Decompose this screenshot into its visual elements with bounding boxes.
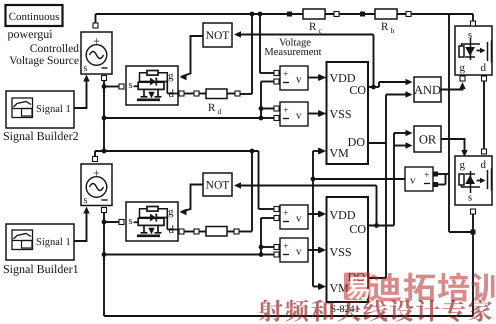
M3 g port (460, 76, 465, 81)
wire M2 d to R_d2 (184, 231, 194, 233)
wire VM4 minus chain to VM5 (261, 217, 274, 219)
svg-text:powergui: powergui (8, 27, 54, 41)
junction left bus VM5 wire (102, 252, 107, 257)
junction VM5 plus (259, 245, 264, 250)
M3 d port (482, 76, 487, 81)
svg-text:v: v (296, 246, 302, 258)
svg-text:g: g (168, 70, 174, 82)
junction VM2 minus (259, 116, 264, 121)
wire left bus V2 bottom to bottom rail (103, 213, 105, 317)
svg-text:+: + (283, 69, 289, 80)
V2 bottom port (102, 208, 107, 213)
wire DO2 stub (368, 277, 386, 279)
logic OR (414, 126, 441, 152)
transistor M4 MOSFET vertical flipped (455, 156, 492, 205)
wire VM3 plus stub (436, 173, 449, 175)
svg-text:v: v (296, 213, 302, 225)
svg-text:OR: OR (419, 133, 437, 147)
M1 s port (119, 84, 124, 89)
IC U1 S-8241 subsystem (327, 62, 369, 164)
svg-text:R: R (309, 21, 317, 33)
junction left bus V2 rail (102, 149, 107, 154)
voltmeter VM5 (280, 238, 308, 262)
svg-text:Voltage Source: Voltage Source (9, 55, 79, 67)
junction M4 s wire (471, 230, 476, 235)
wire long horizontal VM5 minus to left bus (104, 254, 261, 256)
svg-text:s: s (129, 216, 133, 227)
signal builder SB1 (6, 224, 74, 260)
svg-text:AND: AND (414, 83, 441, 97)
M4 d port (482, 149, 487, 154)
wire VM3 output to VM inputs riser (313, 178, 405, 180)
voltmeter VM1 (280, 66, 308, 90)
junction top rail VM1 riser (258, 12, 263, 17)
junction VM2 plus (259, 106, 264, 111)
svg-text:Signal Builder1: Signal Builder1 (3, 262, 79, 276)
wire VM4 output to VDD2 (308, 213, 320, 215)
wire VM2 output to VSS1 (308, 113, 320, 115)
wire NOT2 input feed from CO2 (240, 185, 377, 187)
wire VM3 minus stub (436, 184, 446, 186)
logic AND (414, 77, 441, 102)
junction left bus VM2 wire (102, 116, 107, 121)
wire left bus V1 bottom down to V2 top rail (103, 81, 105, 152)
junction VM5 minus (259, 252, 264, 257)
wire M4 s riser to bottom rail (472, 214, 474, 316)
junction CO2 node (374, 223, 379, 228)
transistor M3 MOSFET vertical (455, 26, 492, 75)
svg-text:DO: DO (348, 135, 366, 149)
IC U2 S-8241 subsystem (327, 197, 369, 302)
svg-text:VSS: VSS (330, 245, 352, 259)
wire V2 top rail (95, 150, 259, 152)
wire riser V2 rail to VM4 plus (258, 151, 260, 209)
wire VM3 net riser from top rail to y232 (448, 14, 450, 232)
svg-text:g: g (168, 206, 174, 218)
wire M3 d to M4 d (483, 81, 485, 149)
voltmeter VM2 (280, 102, 308, 126)
logic NOT1 (203, 23, 232, 47)
V1 bottom port (102, 76, 107, 81)
logic NOT2 (203, 173, 232, 196)
svg-text:CO: CO (349, 222, 366, 236)
V2 top port (93, 157, 98, 162)
voltmeter VM3 mirrored (405, 167, 433, 191)
svg-text:g: g (460, 159, 466, 171)
wire NOT1 output to M1 gate (182, 36, 204, 77)
transistor M2 MOSFET (126, 202, 178, 241)
svg-text:s: s (468, 193, 472, 204)
M1 d port (179, 91, 184, 96)
wire bottom rail (104, 315, 473, 317)
resistor R_c (287, 12, 292, 17)
svg-text:s: s (84, 195, 88, 206)
svg-text:VSS: VSS (330, 107, 352, 121)
wire SB1 to V2 s input (74, 211, 87, 241)
svg-text:v: v (410, 175, 416, 187)
svg-text:NOT: NOT (206, 30, 230, 42)
wire riser R_d to top rail (251, 14, 253, 94)
watermark slogan text (259, 300, 283, 322)
wire NOT2 output to M2 gate (182, 185, 204, 212)
wire long horizontal VM2 minus to left bus (104, 117, 261, 119)
wire VM5 output to VSS2 (308, 249, 320, 251)
wire OR output to M4 gate (441, 139, 465, 152)
wire top rail from V1 to R_c R_b and M3 (96, 13, 474, 15)
M2 s port (119, 220, 124, 225)
svg-text:+: + (283, 105, 289, 116)
svg-text:Signal 1: Signal 1 (36, 104, 71, 115)
wire AND output to M3 gate (441, 86, 463, 90)
svg-text:d: d (481, 62, 487, 74)
resistor R_b (360, 12, 365, 17)
junction left bus M2 s (102, 220, 107, 225)
svg-text:+: + (424, 170, 430, 181)
svg-text:VM: VM (330, 146, 350, 160)
svg-text:v: v (296, 110, 302, 122)
wire VM1 output to VDD1 (308, 77, 320, 79)
junction VM3 output node (311, 177, 316, 182)
V1 top port (93, 23, 98, 28)
wire VM1 minus chain to VM2 (261, 81, 274, 83)
wire M1 d to R_d (184, 93, 194, 95)
svg-text:VDD: VDD (330, 208, 356, 222)
wire riser R_d2 to V2 rail (251, 151, 253, 232)
U1 input arrows (322, 77, 326, 79)
junction left bus M1 s (102, 84, 107, 89)
junction top rail R_d riser (250, 12, 255, 17)
wire DO1 to AND in2 riser (368, 142, 386, 144)
svg-text:b: b (391, 26, 395, 35)
svg-text:NOT: NOT (206, 180, 230, 192)
svg-text:CO: CO (349, 83, 366, 97)
signal builder SB2 (6, 91, 74, 128)
powergui block (6, 5, 63, 26)
wire CO1 to AND in1 (368, 86, 379, 88)
wire SB2 to V1 s input (74, 79, 87, 108)
resistor R_d2 (194, 229, 199, 234)
M3 top port (471, 21, 476, 26)
svg-text:s: s (129, 80, 133, 91)
watermark big text (370, 273, 401, 302)
transistor M1 MOSFET (126, 66, 178, 105)
watermark logo square (344, 273, 371, 301)
M2 d port (179, 229, 184, 234)
svg-text:v: v (296, 74, 302, 86)
svg-text:Signal Builder2: Signal Builder2 (3, 129, 79, 143)
svg-text:Measurement: Measurement (264, 47, 321, 58)
svg-text:s: s (84, 63, 88, 74)
wire riser top rail to VM1 plus (259, 14, 261, 73)
svg-text:R: R (208, 102, 216, 114)
junction V2 rail R_d2 riser (250, 149, 255, 154)
svg-text:R: R (381, 21, 389, 33)
wire CO2 to OR riser (368, 225, 394, 227)
voltmeter VM4 (280, 205, 308, 229)
svg-text:d: d (218, 107, 222, 116)
M4 s port (471, 209, 476, 214)
resistor R_d (194, 91, 199, 96)
controlled voltage source V1 (81, 32, 112, 74)
wire V1 bottom to M1 s (104, 86, 119, 88)
svg-text:Controlled: Controlled (30, 43, 79, 55)
wire V2 bottom to M2 s (104, 221, 119, 223)
controlled voltage source V2 (81, 164, 112, 206)
svg-text:g: g (460, 62, 466, 74)
wire NOT1 input feed from CO1 (240, 34, 374, 36)
junction CO1 node (371, 85, 376, 90)
svg-text:+: + (283, 208, 289, 219)
svg-text:Continuous: Continuous (9, 11, 60, 23)
svg-text:Signal 1: Signal 1 (36, 237, 71, 248)
svg-text:d: d (481, 159, 487, 171)
svg-text:+: + (283, 241, 289, 252)
